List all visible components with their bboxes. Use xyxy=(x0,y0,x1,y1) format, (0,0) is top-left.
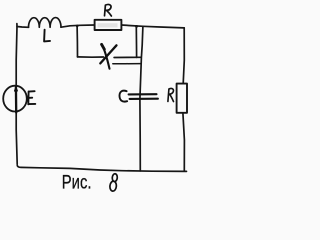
wire: switch branch left horizontal xyxy=(78,56,104,58)
switch cross stroke xyxy=(102,44,110,68)
wire: right vertical lower (R2 to bottom-right corner) xyxy=(183,113,185,171)
pencil smudge inside R1 xyxy=(98,23,118,27)
wire: top segment from R1 to capacitor-branch node xyxy=(121,25,143,26)
node: junction of switch branch and top wire xyxy=(76,25,79,28)
inductor L xyxy=(29,18,62,28)
wire: bottom horizontal xyxy=(17,165,186,171)
wire: switch branch right vertical xyxy=(135,26,137,57)
label R of R2 xyxy=(168,88,174,101)
caption 8 (bottom loop) xyxy=(110,181,117,192)
label R of R1 xyxy=(105,4,112,16)
wire: top-left horizontal segment xyxy=(17,24,29,28)
label C xyxy=(119,91,127,102)
label L xyxy=(44,30,50,42)
wire: right vertical upper (corner to R2) xyxy=(183,28,184,84)
capacitor C bottom plate xyxy=(130,98,158,100)
label E xyxy=(28,91,35,104)
wire: switch branch left vertical xyxy=(76,26,78,57)
wire: top segment from node to top-right corner xyxy=(143,26,184,28)
resistor R2 (right vertical) xyxy=(177,84,187,113)
capacitor C top plate xyxy=(129,93,157,95)
wire: switch branch right horizontal (upper) xyxy=(114,56,141,58)
node: junction of switch right vertical with top wire xyxy=(135,25,138,28)
switch blade xyxy=(100,45,116,63)
wire: switch branch right horizontal (lower double-stroke) xyxy=(113,63,141,65)
caption 8 (top loop) xyxy=(112,174,118,182)
resistor R1 (top horizontal) xyxy=(95,20,122,30)
switch cross stroke thick top wedge xyxy=(102,44,105,49)
wire: top segment from inductor to resistor R1 xyxy=(61,25,95,27)
wire: left vertical xyxy=(16,27,17,165)
EMF source E (circle) xyxy=(3,86,27,112)
EMF arrow inside source xyxy=(15,87,18,113)
wire: capacitor branch vertical xyxy=(140,26,143,171)
svg-text:Рис.: Рис. xyxy=(62,172,92,192)
